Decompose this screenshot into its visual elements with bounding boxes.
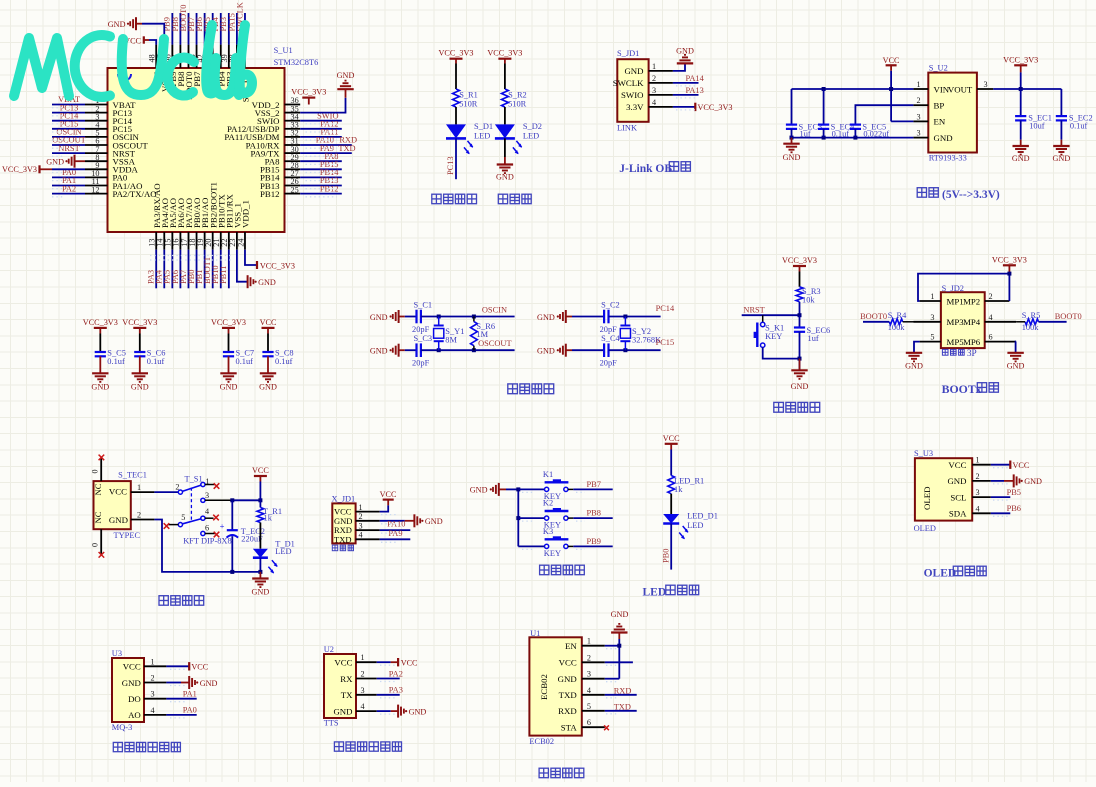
svg-text:VCC_3V3: VCC_3V3 (2, 165, 37, 174)
wire net PA14 (673, 82, 699, 84)
ground symbol top right of U1 (337, 88, 353, 90)
svg-text:RXD: RXD (614, 687, 632, 696)
wire pin2 to ground bus (154, 520, 260, 572)
U1 bottom pin 22 (228, 232, 230, 250)
svg-text:5: 5 (930, 333, 934, 342)
wire S_R3 to NRST node (799, 302, 801, 315)
resistor LED_R1 1k (668, 476, 675, 494)
ground wire at U1 pin 35 (300, 98, 345, 113)
wire LED_D1 to net PB0 (670, 524, 672, 570)
compile marks dots (52, 86, 1008, 718)
capacitor T_EC2 220uF (231, 500, 233, 530)
junction ground bus (798, 357, 802, 361)
svg-text:GND: GND (1007, 362, 1025, 371)
wire net OSCOUT (52, 144, 85, 146)
svg-text:MQ-3: MQ-3 (112, 723, 132, 732)
wire K2 to net PB8 (568, 517, 573, 519)
svg-text:VCC: VCC (380, 490, 397, 499)
svg-text:VCC: VCC (559, 658, 577, 668)
regulator S_U2 box (928, 73, 977, 153)
wire net PA1 (166, 698, 196, 700)
title programmable LED (432, 194, 441, 204)
svg-text:GND: GND (558, 674, 577, 684)
power VCC_3V3 above S_C7 (222, 327, 235, 329)
svg-text:VCC: VCC (191, 663, 208, 672)
svg-text:TX: TX (341, 690, 353, 700)
wire pin5 to ground (914, 342, 920, 353)
junction key bus row 2 (516, 516, 520, 520)
ground above S_JD1 pin1 (677, 62, 693, 64)
wire net PB13 (300, 185, 342, 187)
wire net PB11 (228, 250, 230, 289)
svg-text:GND: GND (496, 173, 514, 182)
title alcohol detect module (113, 742, 122, 751)
svg-text:2: 2 (151, 674, 155, 683)
ground below S_C5 (92, 372, 108, 374)
svg-text:S_R1: S_R1 (459, 91, 478, 100)
svg-text:1: 1 (930, 292, 934, 301)
push button K2 KEY (545, 516, 549, 520)
ground right of U3 (188, 676, 190, 689)
svg-text:VCC_3V3: VCC_3V3 (211, 318, 246, 327)
wire net PB5 (991, 496, 1011, 498)
S_U2 left pin 2 (913, 104, 928, 106)
svg-text:S_U1: S_U1 (274, 46, 293, 55)
U1 left pin 10 (85, 176, 108, 178)
svg-text:1: 1 (917, 80, 921, 89)
U1 right pin 26 (285, 185, 301, 187)
S_JD2 pin 2 (985, 300, 1010, 302)
wire pin6 to ground (1015, 342, 1018, 353)
ground left of keys (498, 483, 500, 496)
S_JD1 pin 1 (649, 70, 673, 72)
svg-text:3: 3 (359, 521, 363, 530)
svg-text:1: 1 (359, 503, 363, 512)
power VCC_3V3 above S_C5 (94, 327, 107, 329)
wire VCC to VIN and EN (890, 71, 892, 122)
svg-text:GND: GND (108, 20, 126, 29)
LED LED_D1 (663, 514, 679, 524)
svg-text:GND: GND (611, 610, 629, 619)
wire S_C3 row (421, 349, 515, 351)
connector S_TEC1 box (94, 481, 131, 529)
svg-text:4: 4 (205, 507, 209, 516)
wire VCC pin (605, 661, 633, 663)
ground right of S_U3 (1013, 474, 1015, 487)
wire net PB7 (196, 13, 198, 45)
wire net PB4 (220, 13, 222, 45)
svg-text:VCC_3V3: VCC_3V3 (487, 49, 522, 58)
svg-text:S_JD1: S_JD1 (617, 49, 639, 58)
U1 left pin 4 (85, 128, 108, 130)
wire net RXD (605, 694, 637, 696)
svg-text:1: 1 (587, 637, 591, 646)
svg-text:S_TEC1: S_TEC1 (118, 471, 147, 480)
wire net PC13 (52, 112, 85, 114)
svg-text:VCC: VCC (948, 460, 966, 470)
svg-text:BOOT0: BOOT0 (860, 312, 887, 321)
LED S_D2 (495, 124, 515, 138)
svg-text:2: 2 (989, 292, 993, 301)
svg-text:PB0: PB0 (662, 549, 671, 563)
svg-text:BOOTx: BOOTx (942, 382, 982, 396)
U1 bottom pin 24 (244, 232, 246, 250)
U1 right pin 27 (285, 176, 301, 178)
svg-text:MP5: MP5 (947, 337, 965, 347)
svg-text:1uf: 1uf (800, 129, 811, 138)
svg-text:510R: 510R (459, 100, 478, 109)
svg-text:2: 2 (652, 74, 656, 83)
S_JD2 pin 4 (985, 321, 1016, 323)
svg-text:STM32C8T6: STM32C8T6 (274, 58, 319, 67)
svg-text:6: 6 (989, 333, 993, 342)
svg-text:2: 2 (137, 511, 141, 520)
wire net PA10 (380, 529, 411, 531)
wire U2 pin1 to VCC (377, 661, 391, 663)
wire net PB3 (228, 13, 230, 45)
wire net PB12 (300, 193, 342, 195)
svg-text:0.1uf: 0.1uf (275, 357, 293, 366)
title bluetooth module (539, 768, 548, 778)
svg-text:8M: 8M (445, 335, 457, 344)
svg-text:VCC: VCC (883, 56, 900, 65)
wire pin2 to ground (380, 520, 405, 522)
svg-text:0.1uf: 0.1uf (236, 357, 254, 366)
wire net BOOT0 (187, 13, 189, 45)
ground below pin6 (1007, 352, 1023, 354)
wire S_R1 to S_D1 (455, 107, 457, 124)
svg-text:VCC_3V3: VCC_3V3 (260, 261, 295, 270)
svg-text:2: 2 (587, 653, 591, 662)
wire GND bus (792, 137, 914, 139)
svg-text:VCC_3V3: VCC_3V3 (122, 318, 157, 327)
svg-text:VCC_3V3: VCC_3V3 (782, 256, 817, 265)
svg-text:0.1uf: 0.1uf (832, 129, 850, 138)
svg-text:6: 6 (587, 718, 591, 727)
S_U2 left pin 3 (913, 120, 928, 122)
ground below reset (799, 359, 801, 371)
svg-text:VCC_3V3: VCC_3V3 (291, 87, 326, 96)
resistor S_R1 510R (453, 89, 460, 107)
crystal S_Y2 32.768K (623, 315, 627, 319)
svg-text:RX: RX (340, 674, 353, 684)
svg-text:U3: U3 (112, 649, 122, 658)
svg-text:1M: 1M (476, 330, 488, 339)
MCU U1 box (108, 68, 285, 232)
svg-text:GND: GND (947, 476, 966, 486)
switch link dashed (190, 488, 192, 522)
junction VIN-EC4 (822, 87, 826, 91)
svg-text:4: 4 (587, 686, 591, 695)
wire K1 to net PB7 (568, 488, 573, 490)
wire net SWCLK (244, 13, 246, 45)
U1 right pin 29 (285, 160, 301, 162)
svg-text:LED: LED (687, 521, 703, 530)
junction NRST node (798, 313, 802, 317)
capacitor S_EC2 0.1uf (1060, 89, 1062, 116)
svg-text:GND: GND (220, 383, 238, 392)
svg-text:J-Link OB: J-Link OB (619, 163, 672, 175)
svg-text:4: 4 (989, 313, 993, 322)
svg-text:510R: 510R (508, 100, 527, 109)
capacitor S_C3 20pF (415, 343, 417, 357)
svg-text:PB12: PB12 (260, 189, 280, 199)
svg-text:2: 2 (976, 472, 980, 481)
power VCC above T_R1 (254, 475, 267, 477)
wire bus to K2 (518, 517, 544, 519)
S_JD1 pin 2 (649, 82, 673, 84)
ground below S_C6 (132, 372, 148, 374)
svg-text:PC13: PC13 (446, 156, 455, 175)
svg-text:PB8: PB8 (587, 509, 601, 518)
svg-text:S_C2: S_C2 (601, 301, 620, 310)
power VCC_3V3 at U1 pin 36 (302, 96, 315, 98)
U1 right pin 33 (285, 128, 301, 130)
svg-text:VCC: VCC (109, 487, 127, 497)
wire net PA2 (377, 678, 400, 680)
wire net PB14 (300, 176, 342, 178)
wire net PA11 (300, 136, 342, 138)
title power circuit (159, 596, 168, 606)
junction VIN-VCC (889, 87, 893, 91)
svg-text:MP4: MP4 (963, 317, 981, 327)
S_JD2 pin 1 (920, 300, 941, 302)
power VCC_3V3 above rail (1014, 64, 1027, 66)
svg-text:TXD: TXD (614, 703, 631, 712)
wire pin1 to VCC (380, 505, 389, 511)
ground at U1 pin 47 (142, 24, 164, 45)
wire net PB5 (212, 13, 214, 45)
svg-text:RT9193-33: RT9193-33 (929, 154, 967, 163)
svg-text:4: 4 (359, 531, 363, 540)
svg-text:KFT DIP-8X8: KFT DIP-8X8 (183, 537, 231, 546)
wire net PA9 (300, 152, 352, 154)
U1 left pin 11 (85, 185, 108, 187)
svg-text:GND: GND (333, 706, 352, 716)
display S_U3 box (915, 458, 972, 520)
U1 bottom pin 14 (163, 232, 165, 250)
svg-text:DO: DO (128, 694, 141, 704)
svg-text:0.1uf: 0.1uf (1070, 122, 1088, 131)
key bus vertical (517, 489, 519, 546)
ground below S_EC2 (1053, 145, 1069, 147)
svg-text:TYPEC: TYPEC (114, 531, 141, 540)
connector S_JD1 box (617, 59, 648, 122)
svg-text:4: 4 (151, 706, 155, 715)
svg-text:S_D1: S_D1 (474, 122, 493, 131)
svg-text:PB9: PB9 (587, 537, 601, 546)
svg-text:VCC: VCC (260, 318, 277, 327)
svg-text:PA0: PA0 (183, 706, 197, 715)
ground right of X_JD1 (413, 514, 415, 527)
U1 bottom pin 19 (204, 232, 206, 250)
wire pin1 to switch (154, 491, 178, 493)
svg-text:NC: NC (93, 511, 103, 523)
svg-text:LED: LED (275, 547, 291, 556)
svg-text:0: 0 (91, 543, 100, 547)
ground below S_EC1 (1013, 145, 1029, 147)
svg-text:VCC_3V3: VCC_3V3 (438, 49, 473, 58)
U1 right pin 31 (285, 144, 301, 146)
svg-text:PB5: PB5 (1007, 488, 1021, 497)
svg-text:OLED: OLED (924, 568, 957, 580)
wire net PA2 (52, 193, 85, 195)
U1 bottom pin 18 (196, 232, 198, 250)
S_U2 left pin 1 (913, 88, 928, 90)
junction key bus row 1 (516, 487, 520, 491)
arc mark inside U1 (118, 74, 131, 81)
svg-text:SWIO: SWIO (621, 90, 643, 100)
svg-text:2: 2 (359, 512, 363, 521)
svg-text:KEY: KEY (765, 332, 782, 341)
U1 bottom pin 17 (187, 232, 189, 250)
junction GND-EC5 (853, 136, 857, 140)
svg-text:GND: GND (1053, 154, 1071, 163)
svg-text:TXD: TXD (338, 144, 355, 153)
wire S_JD1 pin1 to ground (673, 64, 685, 71)
svg-text:2: 2 (361, 670, 365, 679)
svg-text:S_R2: S_R2 (508, 91, 527, 100)
svg-text:OSCIN: OSCIN (482, 305, 507, 314)
svg-text:1: 1 (361, 653, 365, 662)
svg-text:T_S1: T_S1 (185, 475, 203, 484)
ground below pin5 (906, 352, 922, 354)
resistor S_R3 10k (799, 272, 801, 287)
svg-text:GND: GND (783, 153, 801, 162)
wire VCC to node (259, 482, 261, 501)
switch lever 2-1 (183, 485, 201, 491)
ground left of S_C1 (398, 310, 400, 323)
svg-text:20pF: 20pF (600, 325, 618, 334)
wire S_C1 row (421, 316, 515, 318)
U1 top pin 47 (163, 45, 165, 68)
svg-text:20pF: 20pF (600, 359, 618, 368)
U1 right pin 32 (285, 136, 301, 138)
junction VCC loop (1007, 272, 1011, 276)
title power 5V to 3.3V (917, 188, 926, 198)
svg-text:100k: 100k (1022, 323, 1040, 332)
wire net PA8 (300, 160, 342, 162)
wire S_C2 row (609, 316, 661, 318)
svg-text:VCC_3V3: VCC_3V3 (83, 318, 118, 327)
svg-text:2: 2 (175, 483, 179, 492)
wire net PA5 (171, 250, 173, 289)
S_TEC1 bottom pin 0 (100, 529, 102, 555)
svg-text:GND: GND (122, 678, 141, 688)
wire net PC14 (52, 120, 85, 122)
S_TEC1 pin 2 (131, 519, 155, 521)
svg-text:GND: GND (676, 46, 694, 55)
wire U3 pin2 to ground (166, 682, 181, 684)
wire S_D1 to net PC13 (455, 138, 457, 179)
wire net PA3 (377, 694, 400, 696)
switch pin 5 stub (168, 524, 178, 526)
svg-text:GND: GND (259, 383, 277, 392)
svg-text:3: 3 (652, 86, 656, 95)
capacitor S_C4 20pF (603, 343, 605, 357)
wire S_D2 to ground (504, 138, 506, 157)
svg-text:LED: LED (523, 132, 539, 141)
svg-text:VCC: VCC (663, 434, 680, 443)
U1 bottom pin 13 (155, 232, 157, 250)
svg-text:12: 12 (91, 185, 99, 194)
svg-text:PB7: PB7 (587, 480, 601, 489)
wire bus to K1 (518, 488, 544, 490)
S_U2 right pin 3 VOUT (977, 88, 993, 90)
module U2 box (324, 654, 356, 718)
svg-text:EN: EN (565, 641, 577, 651)
svg-text:24: 24 (236, 239, 245, 247)
svg-text:OLED: OLED (914, 524, 936, 533)
wire net PB8 (179, 13, 181, 45)
svg-text:VDD_1: VDD_1 (241, 200, 251, 228)
power VCC at U1 pin 48 (149, 40, 156, 45)
svg-text:GND: GND (905, 362, 923, 371)
wire K3 to net PB9 (568, 545, 573, 547)
wire net PA3 (155, 250, 157, 289)
resistor S_R6 1M (472, 315, 476, 319)
wire net PB6 (204, 13, 206, 45)
svg-text:PA14: PA14 (685, 74, 704, 83)
S_U2 left pin 4 (913, 137, 928, 139)
U1 top pin 42 (204, 45, 206, 68)
wire net PA0 (166, 714, 196, 716)
U1 right pin 36 (285, 104, 301, 106)
wire net OSCIN (52, 136, 85, 138)
wire net SWIO (300, 120, 342, 122)
wire net BOOT0 right (1039, 321, 1067, 323)
capacitor S_EC3 1uf (791, 89, 793, 125)
svg-text:EN: EN (934, 117, 946, 127)
svg-text:GND: GND (1024, 477, 1042, 486)
wire net PA4 (163, 250, 165, 289)
junction VOUT-VCC_3V3 (1019, 87, 1023, 91)
svg-text:3: 3 (976, 488, 980, 497)
push button K3 KEY (545, 544, 549, 548)
U1 left pin 1 (85, 104, 108, 106)
connector S_JD2 box (941, 292, 985, 348)
svg-text:MP3: MP3 (947, 317, 965, 327)
svg-text:GND: GND (1012, 154, 1030, 163)
wire net PC15 (52, 128, 85, 130)
svg-text:VCC: VCC (123, 662, 141, 672)
svg-text:S_C3: S_C3 (414, 334, 433, 343)
svg-text:OSCOUT: OSCOUT (478, 339, 512, 348)
power VCC_3V3 above S_R3 (793, 265, 806, 267)
wire VCC to S_R1 (455, 64, 457, 90)
svg-text:PB12: PB12 (320, 184, 339, 193)
connector X_JD1 box (332, 503, 355, 543)
svg-text:GND: GND (791, 382, 809, 391)
wire S_K1 to ground bus (763, 347, 800, 358)
capacitor S_EC4 0.1uf (823, 89, 825, 125)
wire net PB0 (196, 250, 198, 289)
U1 right pin 35 (285, 112, 301, 114)
svg-text:GND: GND (91, 383, 109, 392)
wire net VBAT (52, 104, 85, 106)
svg-text:S_C1: S_C1 (414, 301, 433, 310)
capacitor S_EC5 0.022uf (850, 123, 861, 125)
svg-text:K2: K2 (543, 499, 553, 508)
switch lever 5-4 (183, 519, 201, 524)
resistor S_R2 510R (502, 89, 509, 107)
svg-text:S_R5: S_R5 (1022, 311, 1041, 320)
svg-text:VCC: VCC (401, 659, 418, 668)
capacitor S_C7 0.1uf (228, 334, 230, 353)
no connect STA (604, 725, 609, 730)
switch pin 1 stub (205, 484, 215, 486)
wire net PB15 (300, 168, 342, 170)
